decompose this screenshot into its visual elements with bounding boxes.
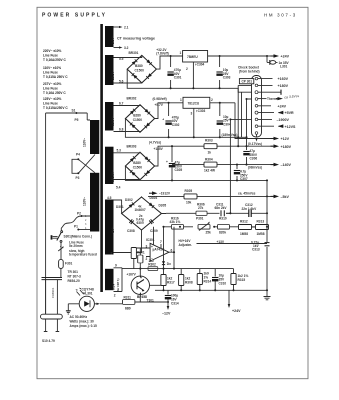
svg-text:BR302: BR302 <box>127 97 137 101</box>
svg-text:R317: R317 <box>167 281 175 285</box>
svg-text:680: 680 <box>125 307 131 311</box>
svg-text:155.5V~: 155.5V~ <box>111 170 115 182</box>
svg-text:+160V: +160V <box>278 77 289 81</box>
svg-text:⊦C304: ⊦C304 <box>195 63 205 67</box>
svg-text:10k: 10k <box>186 201 192 205</box>
svg-text:HM 307-3: HM 307-3 <box>264 13 297 18</box>
svg-text:5.4: 5.4 <box>116 186 121 190</box>
svg-text:S1: S1 <box>72 109 76 113</box>
svg-text:5.6: 5.6 <box>119 80 124 84</box>
svg-text:2: 2 <box>211 98 213 102</box>
svg-text:(4.7Vss): (4.7Vss) <box>149 141 161 145</box>
svg-text:1M58: 1M58 <box>257 232 265 236</box>
svg-text:Line Fuse: Line Fuse <box>43 54 58 58</box>
svg-text:ca. 45mVss: ca. 45mVss <box>238 192 256 196</box>
svg-text:125V~ ±10%: 125V~ ±10% <box>43 97 61 101</box>
svg-text:P5: P5 <box>75 118 79 122</box>
svg-text:+12V: +12V <box>281 137 290 141</box>
svg-text:R313: R313 <box>257 219 265 223</box>
svg-text:2.5V~: 2.5V~ <box>111 35 115 44</box>
svg-text:+5.7V: +5.7V <box>155 103 164 107</box>
svg-text:+: + <box>162 117 164 121</box>
svg-text:–1912V: –1912V <box>159 192 171 196</box>
svg-text:P301: P301 <box>196 217 204 221</box>
svg-text:R304: R304 <box>205 158 213 162</box>
svg-text:NT 307-3: NT 307-3 <box>68 275 82 279</box>
svg-text:2.1: 2.1 <box>124 26 129 30</box>
svg-text:820k: 820k <box>219 231 226 235</box>
svg-text:48V~: 48V~ <box>111 226 115 234</box>
svg-text:110V~ ±10%: 110V~ ±10% <box>43 66 61 70</box>
svg-text:C307: C307 <box>240 177 248 181</box>
svg-text:(98mVss): (98mVss) <box>248 166 262 170</box>
svg-text:16.5V~: 16.5V~ <box>111 116 115 126</box>
svg-text:110V~: 110V~ <box>82 138 86 147</box>
svg-text:110V~: 110V~ <box>82 197 86 206</box>
svg-text:ca 3.5Vss: ca 3.5Vss <box>284 94 300 100</box>
svg-text:237V~ ±10%: 237V~ ±10% <box>43 82 61 86</box>
svg-text:2: 2 <box>85 219 87 222</box>
svg-text:3: 3 <box>85 223 87 226</box>
svg-text:temperature fused: temperature fused <box>69 253 97 257</box>
svg-text:R303: R303 <box>205 139 213 143</box>
svg-text:5x 20mm: 5x 20mm <box>69 244 83 248</box>
svg-text:+180V: +180V <box>278 84 289 88</box>
svg-text:C306: C306 <box>250 157 258 161</box>
svg-text:Dx: Dx <box>167 262 171 266</box>
svg-text:P1: P1 <box>74 225 78 229</box>
svg-text:7812CU: 7812CU <box>188 102 200 106</box>
svg-text:220V~ ±10%: 220V~ ±10% <box>43 49 61 53</box>
svg-text:C305: C305 <box>175 168 183 172</box>
svg-text:Line Fuse: Line Fuse <box>43 71 58 75</box>
svg-text:D305: D305 <box>159 204 167 208</box>
svg-text:7: 7 <box>160 240 162 244</box>
svg-text:CT measuring voltage: CT measuring voltage <box>117 37 155 41</box>
svg-text:1M58: 1M58 <box>240 232 248 236</box>
svg-text:–1900V: –1900V <box>277 118 290 122</box>
svg-text:B280: B280 <box>133 161 141 165</box>
svg-text:(for CRT f.): (for CRT f.) <box>116 278 120 292</box>
svg-text:+180V: +180V <box>281 145 292 149</box>
svg-text:5.3: 5.3 <box>117 149 122 153</box>
svg-text:Amps (max.): 0.15: Amps (max.): 0.15 <box>70 324 98 328</box>
svg-text:2: 2 <box>114 294 116 298</box>
svg-text:+12VS: +12VS <box>285 125 296 129</box>
svg-text:T 0,16A/250V C: T 0,16A/250V C <box>43 58 67 62</box>
svg-text:+167V: +167V <box>127 273 137 277</box>
svg-text:C313: C313 <box>252 248 260 252</box>
svg-text:Adjustm.: Adjustm. <box>179 243 193 247</box>
svg-text:R312: R312 <box>240 219 248 223</box>
svg-text:F301: F301 <box>65 262 72 266</box>
svg-text:R308: R308 <box>185 281 193 285</box>
svg-text:C308: C308 <box>127 229 135 233</box>
svg-text:R315: R315 <box>238 278 246 282</box>
svg-text:+24V: +24V <box>232 309 241 313</box>
svg-text:8: 8 <box>111 252 113 256</box>
svg-text:(from behind): (from behind) <box>239 69 260 73</box>
svg-text:CP 301: CP 301 <box>242 80 253 84</box>
svg-text:Line Fuse: Line Fuse <box>43 87 58 91</box>
svg-text:Watts (max.): 30: Watts (max.): 30 <box>70 320 95 324</box>
svg-text:HL301: HL301 <box>83 291 93 295</box>
svg-text:25k: 25k <box>206 231 212 235</box>
svg-text:(7.8Veff): (7.8Veff) <box>156 52 168 56</box>
svg-text:C310: C310 <box>219 282 227 286</box>
svg-text:–140V: –140V <box>281 163 292 167</box>
svg-text:C301: C301 <box>174 76 182 80</box>
svg-text:R654-20: R654-20 <box>68 279 80 283</box>
svg-text:B280: B280 <box>133 114 141 118</box>
svg-text:R302: R302 <box>148 263 156 267</box>
svg-text:P3: P3 <box>76 176 80 180</box>
svg-text:27k: 27k <box>198 206 204 210</box>
svg-text:C1500: C1500 <box>133 118 143 122</box>
svg-text:1k: 1k <box>208 151 212 155</box>
svg-text:6.7: 6.7 <box>119 102 124 106</box>
svg-text:+24V: +24V <box>281 55 290 59</box>
svg-text:78MEU: 78MEU <box>187 55 198 59</box>
svg-text:–5kV: –5kV <box>281 195 290 199</box>
svg-text:Line Fuse: Line Fuse <box>43 102 58 106</box>
svg-text:43k 1%: 43k 1% <box>170 220 181 224</box>
svg-text:5.5: 5.5 <box>119 57 124 61</box>
svg-text:(0.98Veff): (0.98Veff) <box>153 97 167 101</box>
svg-text:4.5: 4.5 <box>107 196 112 200</box>
svg-text:1: 1 <box>180 51 182 55</box>
svg-text:S301(Mains Conn.): S301(Mains Conn.) <box>64 235 93 239</box>
svg-text:BR301: BR301 <box>129 51 139 55</box>
svg-text:+13V: +13V <box>217 240 225 244</box>
svg-text:3.2: 3.2 <box>124 46 129 50</box>
svg-text:+: + <box>151 245 153 249</box>
svg-text:R301: R301 <box>137 250 145 254</box>
svg-text:1: 1 <box>180 98 182 102</box>
svg-text:CAB301: CAB301 <box>51 287 55 298</box>
svg-text:T 0,315A 250V C: T 0,315A 250V C <box>43 75 68 79</box>
svg-text:1N4007: 1N4007 <box>135 208 146 212</box>
svg-text:BR303: BR303 <box>127 145 137 149</box>
svg-text:D301: D301 <box>116 205 124 209</box>
svg-text:(0.17Vss): (0.17Vss) <box>248 142 262 146</box>
svg-text:C1500: C1500 <box>135 69 145 73</box>
svg-text:26.1V~: 26.1V~ <box>111 70 115 80</box>
svg-text:2: 2 <box>146 257 148 261</box>
svg-text:C314: C314 <box>171 302 179 306</box>
svg-text:2: 2 <box>186 67 188 71</box>
svg-text:⊦C303: ⊦C303 <box>196 109 206 113</box>
svg-text:L301: L301 <box>280 65 287 69</box>
svg-text:D302: D302 <box>125 198 133 202</box>
svg-text:P4: P4 <box>76 153 80 157</box>
svg-text:6.3V~: 6.3V~ <box>112 281 116 290</box>
svg-text:630V: 630V <box>137 221 145 225</box>
svg-text:S10 4.79: S10 4.79 <box>42 339 55 343</box>
svg-text:TR 301: TR 301 <box>68 270 79 274</box>
svg-text:R311: R311 <box>124 296 132 300</box>
svg-text:AC 50-60Hz: AC 50-60Hz <box>70 315 88 319</box>
svg-text:R310: R310 <box>219 217 227 221</box>
svg-text:C302: C302 <box>172 123 180 127</box>
svg-text:–12V: –12V <box>162 312 171 316</box>
svg-text:C1500: C1500 <box>133 166 143 170</box>
svg-text:C303: C303 <box>223 76 231 80</box>
svg-text:POWER SUPPLY: POWER SUPPLY <box>42 13 107 19</box>
svg-text:3: 3 <box>191 112 193 116</box>
svg-text:+24V: +24V <box>278 104 287 108</box>
svg-text:1: 1 <box>85 215 87 218</box>
svg-text:R305: R305 <box>185 189 193 193</box>
svg-text:T 0,16A 250V C: T 0,16A 250V C <box>43 91 66 95</box>
svg-text:P2: P2 <box>77 212 81 216</box>
svg-text:R314: R314 <box>204 280 212 284</box>
svg-text:C304: C304 <box>223 122 231 126</box>
svg-text:6.8: 6.8 <box>119 128 124 132</box>
svg-text:+185V: +185V <box>154 147 164 151</box>
svg-text:+5VR: +5VR <box>285 111 294 115</box>
svg-text:+: + <box>166 160 168 164</box>
svg-text:1k2 4W: 1k2 4W <box>204 169 215 173</box>
svg-text:T 0,315A/250V C: T 0,315A/250V C <box>43 106 68 110</box>
svg-text:(189mVss): (189mVss) <box>222 133 238 137</box>
svg-text:68n 2kV: 68n 2kV <box>215 206 228 210</box>
svg-text:B380: B380 <box>135 64 143 68</box>
svg-text:9: 9 <box>115 264 117 268</box>
